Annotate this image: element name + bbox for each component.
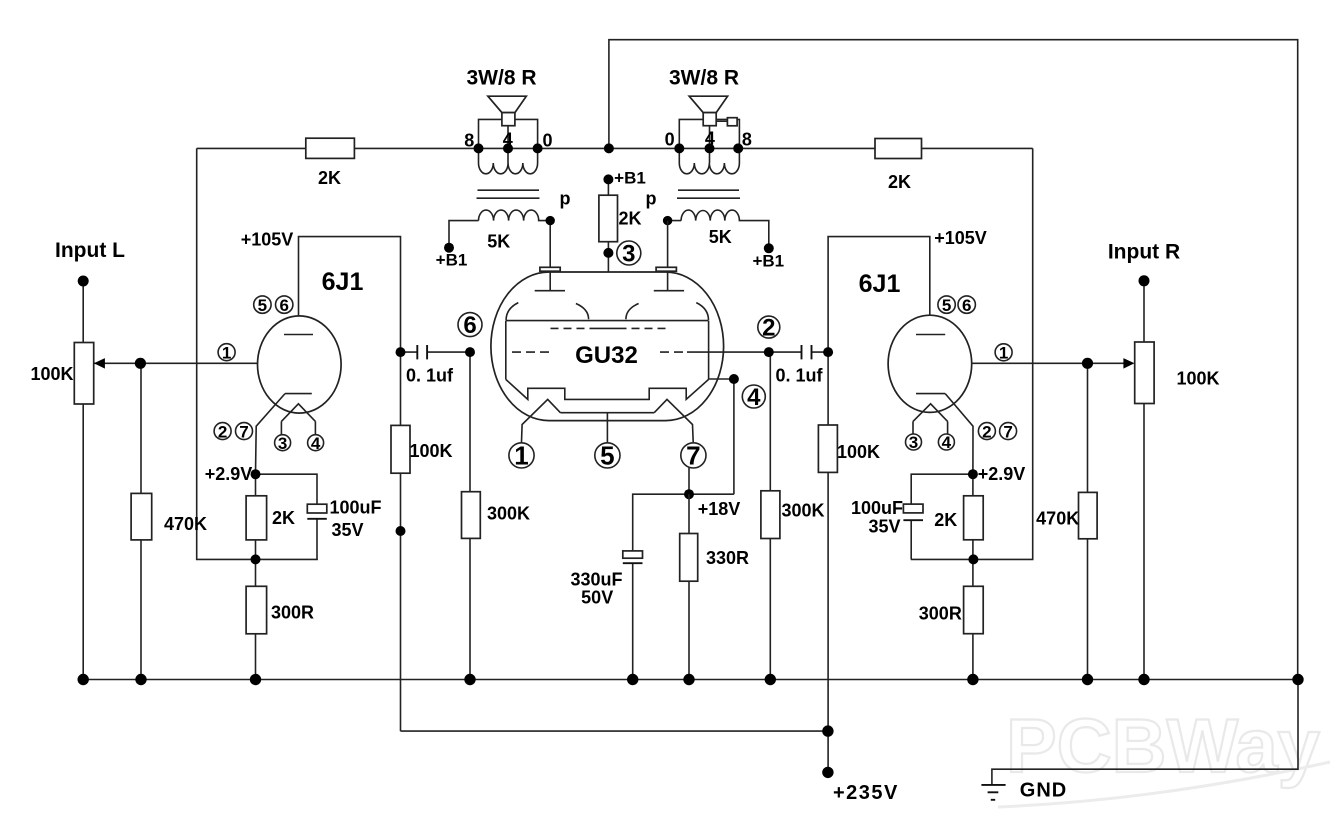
pin circle 1 left V1: [218, 344, 235, 361]
speaker SP2 link to terminal: [715, 120, 727, 122]
svg-text:+105V: +105V: [241, 230, 294, 250]
capacitor 100uF left plate bottom: [307, 518, 327, 520]
wire left 470K column: [140, 363, 142, 679]
pin circle 5 right V2: [938, 296, 955, 313]
wire right input column: [1143, 281, 1145, 680]
wire 330R column: [688, 494, 690, 679]
junction right cap to plate: [823, 347, 833, 357]
pin circle 1: [509, 443, 534, 468]
svg-text:7: 7: [686, 441, 700, 471]
svg-text:+B1: +B1: [614, 169, 646, 188]
resistor 470K right: [1079, 492, 1098, 538]
resistor 300K right: [761, 491, 780, 539]
wire right coupling cap leads: [769, 351, 828, 353]
wire right 100uF branch: [911, 474, 973, 559]
T2 primary lead to plate cap: [667, 221, 669, 268]
svg-text:470K: 470K: [1036, 509, 1079, 529]
svg-text:p: p: [560, 189, 571, 209]
terminal +235V: [822, 767, 833, 778]
wire left input column: [82, 281, 84, 680]
T2 secondary winding: [679, 148, 739, 173]
pin circle 4: [742, 385, 765, 408]
GU32 right plate lead: [667, 271, 669, 291]
svg-text:3: 3: [622, 241, 635, 268]
GU32 left plate arcs: [506, 303, 588, 320]
potentiometer 100K right wiper arrow: [1123, 358, 1134, 369]
CENTER +B1 SCREEN SUPPLY: [599, 169, 646, 329]
svg-text:300K: 300K: [781, 501, 824, 521]
pin circle 3 right V2: [906, 434, 922, 450]
GU32 left plate cap: [540, 267, 560, 271]
svg-text:3W/8 R: 3W/8 R: [669, 67, 739, 90]
RIGHT CATHODE NETWORK: [851, 464, 1025, 634]
T2 center tap lead: [709, 126, 711, 149]
pin circle 6 left V1: [276, 296, 293, 313]
speaker SP1 box: [502, 113, 515, 126]
resistor 2K left cathode: [246, 496, 267, 540]
terminal +B1 center: [603, 174, 613, 184]
svg-text:330R: 330R: [706, 548, 749, 568]
svg-text:2K: 2K: [934, 510, 957, 530]
pin circle 7: [681, 443, 706, 468]
resistor 100K left plate: [391, 425, 410, 473]
svg-text:50V: 50V: [581, 588, 613, 608]
capacitor 0.1uf right: [802, 345, 812, 359]
junction grid wire to 470K left: [135, 358, 146, 369]
svg-text:3: 3: [278, 434, 287, 453]
GROUND BUS DOTS: [78, 674, 1304, 685]
V2 cathode lead: [945, 394, 973, 475]
svg-text:+105V: +105V: [934, 228, 987, 248]
speaker SP2 terminal square: [727, 118, 737, 126]
+18V CATHODE NETWORK GU32: [570, 489, 749, 679]
resistor 2K right cathode: [964, 496, 984, 540]
terminal +B1 left: [444, 243, 454, 253]
resistor 2K screen: [599, 195, 618, 242]
wire left feedback frame: [197, 148, 318, 559]
svg-text:4: 4: [747, 384, 761, 411]
svg-text:8: 8: [464, 131, 474, 151]
svg-text:+B1: +B1: [436, 251, 468, 270]
node +18V: [684, 489, 694, 499]
wire right feedback frame: [911, 148, 1033, 559]
junction left cap to plate: [396, 347, 406, 357]
speaker SP2 cone: [689, 96, 727, 112]
wire right grid-leak 300K column: [769, 352, 771, 679]
SUPPLY DOTS: [822, 725, 833, 778]
svg-text:0. 1uf: 0. 1uf: [406, 366, 454, 386]
V2 cathode bar: [916, 393, 945, 395]
GROUND SYMBOL: [981, 780, 1067, 802]
svg-text:+B1: +B1: [752, 252, 784, 271]
RIGHT OUTPUT TRANSFORMER T2: [646, 67, 785, 271]
GU32 right plate arcs: [626, 303, 709, 320]
svg-text:5K: 5K: [487, 232, 510, 252]
svg-text:7: 7: [239, 422, 248, 441]
GU32 screen top line: [506, 320, 709, 322]
svg-text:+2.9V: +2.9V: [205, 464, 253, 484]
junction right cap to grid pin2: [764, 347, 774, 357]
V1 cathode bar: [285, 393, 312, 395]
junction bus 330uF: [627, 674, 638, 685]
capacitor 0.1uf left: [417, 345, 427, 359]
pin7 lead below: [688, 468, 690, 494]
pin number 3 circle: [617, 241, 641, 265]
wire left coupling cap leads: [401, 351, 471, 353]
junction bus 300K right: [765, 674, 776, 685]
GU32 screen dashes: [551, 327, 666, 329]
speaker SP1 cone: [488, 96, 526, 112]
junction bus pot left: [78, 674, 89, 685]
GU32 right plate cap: [656, 267, 676, 271]
TUBE 6J1 LEFT V1: [214, 230, 363, 475]
pin circle 5: [595, 443, 620, 468]
terminal +B1 right: [764, 243, 774, 253]
junction center bus: [604, 143, 614, 153]
junction bus 300R right: [967, 674, 978, 685]
svg-text:2K: 2K: [618, 209, 641, 229]
svg-text:0: 0: [665, 130, 675, 150]
svg-text:5K: 5K: [709, 227, 732, 247]
GU32 heater bottom line: [560, 412, 654, 414]
svg-text:1: 1: [222, 344, 231, 363]
node 2K bottom right: [968, 554, 978, 564]
wire right grid to pot: [951, 362, 1123, 364]
svg-text:p: p: [646, 189, 657, 209]
svg-text:35V: 35V: [331, 520, 363, 540]
GU32 TUBE U1: [458, 267, 780, 494]
svg-text:Input R: Input R: [1108, 241, 1180, 264]
wire +18V node run: [633, 494, 734, 679]
wire right 470K column: [1087, 363, 1089, 679]
LEFT OUTPUT TRANSFORMER T1: [436, 67, 571, 270]
V2 heater: [913, 404, 948, 435]
potentiometer 100K left wiper arrow: [94, 358, 105, 369]
T1 center tap lead: [507, 126, 509, 149]
wire ground bus: [83, 679, 1298, 681]
T1 secondary winding: [479, 148, 538, 173]
capacitor 100uF right plate bottom: [903, 519, 923, 521]
V1 plate bar: [284, 334, 313, 336]
resistor 330R: [680, 534, 698, 582]
GU32 beam box sides: [506, 321, 709, 380]
V1 heater: [281, 404, 315, 435]
svg-text:300K: 300K: [487, 504, 530, 524]
pin circle 5 left V1: [254, 296, 271, 313]
node +2.9V left: [251, 469, 261, 479]
BUS JUNCTION DOTS TOP: [474, 143, 744, 153]
wire left 100uF branch: [256, 474, 318, 559]
wire +235V feed: [401, 730, 828, 732]
junction bus 300R left: [250, 674, 261, 685]
V2 envelope: [888, 315, 972, 412]
V2 plate bar: [916, 334, 945, 336]
svg-text:6: 6: [962, 296, 971, 315]
svg-text:2: 2: [982, 422, 991, 441]
junction tap0 right: [674, 143, 684, 153]
resistor 100K right plate: [818, 425, 837, 472]
junction bus pot right: [1138, 674, 1149, 685]
resistor 2K feedback left: [306, 138, 355, 158]
junction tap4 left: [503, 143, 513, 153]
V1 cathode lead: [256, 394, 286, 475]
svg-text:470K: 470K: [164, 514, 207, 534]
wire left grid-leak 300K column: [469, 352, 471, 679]
pin circle 4 right V2: [938, 434, 954, 450]
junction 5K to plate cap: [546, 216, 555, 225]
svg-text:8: 8: [742, 130, 752, 150]
junction 5K to plate cap right: [663, 216, 672, 225]
pin circle 2 right V2: [978, 423, 995, 440]
svg-text:100K: 100K: [837, 442, 880, 462]
INPUT L SECTION: [30, 239, 207, 540]
GU32 pin5 lead: [606, 413, 608, 443]
WATERMARK: [998, 704, 1330, 807]
junction tap0 left: [533, 143, 543, 153]
T1 core: [477, 190, 540, 198]
terminal Input R: [1139, 275, 1150, 286]
terminal Input L: [78, 276, 89, 287]
pin circle 2 left V1: [214, 423, 231, 440]
capacitor 100uF left plate top: [307, 504, 327, 513]
svg-text:0. 1uf: 0. 1uf: [775, 366, 823, 386]
junction bus 330R: [683, 674, 694, 685]
TUBE 6J1 RIGHT V2: [859, 228, 1017, 474]
GU32 heater right caret and pin7 lead: [654, 399, 693, 442]
svg-text:2K: 2K: [318, 168, 341, 188]
resistor 300R left: [246, 586, 267, 634]
pin circle 2: [758, 316, 780, 338]
ground bar short: [991, 799, 995, 801]
svg-text:2K: 2K: [272, 508, 295, 528]
svg-text:+18V: +18V: [698, 499, 741, 519]
svg-text:1: 1: [514, 441, 528, 471]
svg-text:0: 0: [542, 131, 552, 151]
svg-text:35V: 35V: [868, 517, 900, 537]
wire left plate node and +105V rail: [299, 237, 401, 731]
GU32 envelope: [491, 272, 724, 421]
svg-text:5: 5: [600, 441, 614, 471]
junction tap4 right: [705, 143, 715, 153]
GRID LEAK RESISTORS 300K: [462, 491, 825, 539]
svg-text:2: 2: [218, 422, 227, 441]
junction bus 470K right: [1082, 674, 1093, 685]
svg-text:+2.9V: +2.9V: [978, 464, 1026, 484]
wire left grid to pot: [94, 362, 278, 364]
node 2K bottom left: [251, 554, 261, 564]
T2 core: [677, 190, 740, 198]
GU32 left plate lead: [549, 271, 551, 291]
svg-text:100uF: 100uF: [329, 498, 381, 518]
GU32 heater left caret and pin1 lead: [522, 399, 561, 442]
svg-text:6J1: 6J1: [322, 268, 364, 296]
svg-text:300R: 300R: [919, 604, 962, 624]
node pin3 dot: [603, 248, 613, 258]
junction tap8 left: [474, 143, 484, 153]
pin circle 6 right V2: [958, 296, 975, 313]
potentiometer 100K left body: [74, 343, 93, 405]
svg-text:2K: 2K: [888, 172, 911, 192]
pin circle 3 left V1: [275, 435, 291, 451]
T1 primary winding 5K: [449, 210, 550, 267]
pin circle 4 left V1: [308, 435, 324, 451]
svg-text:6: 6: [463, 312, 476, 339]
pin circle 6: [458, 313, 482, 337]
T2 secondary box: [679, 119, 739, 148]
ground bar mid: [988, 791, 999, 793]
svg-text:6J1: 6J1: [859, 270, 901, 298]
GU32 pin4 wire: [709, 379, 734, 494]
svg-text:330uF: 330uF: [570, 570, 622, 590]
speaker SP2 box: [703, 113, 716, 126]
INPUT R SECTION: [1036, 241, 1219, 539]
GU32 control grid dashes left: [512, 351, 549, 353]
pin circle 7 right V2: [1000, 423, 1017, 440]
LEFT CATHODE NETWORK: [205, 464, 382, 634]
svg-text:5: 5: [942, 296, 951, 315]
capacitor 330uF plate top: [623, 551, 643, 558]
LABEL +235V: [833, 782, 899, 804]
T1 secondary box: [479, 119, 538, 148]
pin circle 1 right V2: [995, 344, 1012, 361]
GU32 left plate bar: [535, 290, 565, 292]
junction grid wire to 470K right: [1082, 358, 1093, 369]
node +2.9V right: [968, 469, 978, 479]
svg-text:100K: 100K: [1176, 369, 1219, 389]
wire top frame: [609, 40, 1298, 680]
pin circle 7 left V1: [236, 423, 253, 440]
pin4 node dot: [729, 374, 739, 384]
svg-text:4: 4: [311, 434, 321, 453]
GU32 right plate bar: [654, 290, 684, 292]
resistor 300K left: [462, 492, 481, 539]
svg-text:GND: GND: [1020, 780, 1067, 802]
junction left cap to grid pin6: [465, 347, 475, 357]
PLATE LOAD RESISTORS 100K: [391, 425, 880, 536]
svg-text:2: 2: [762, 314, 775, 341]
wire main output bus: [197, 147, 1033, 149]
GU32 cathode crown: [506, 379, 709, 399]
svg-text:7: 7: [1003, 422, 1012, 441]
junction bus right frame: [1292, 674, 1303, 685]
junction +235V feed: [822, 725, 833, 736]
wire right cathode column: [972, 474, 974, 679]
T2 primary winding 5K: [668, 210, 769, 248]
capacitor 100uF right plate top: [903, 504, 923, 513]
capacitor 330uF plate bottom: [623, 562, 643, 564]
wire left cathode column: [255, 474, 257, 679]
junction bus 300K left: [464, 674, 475, 685]
junction bus 470K left: [135, 674, 146, 685]
svg-text:6: 6: [279, 296, 288, 315]
svg-text:100K: 100K: [30, 364, 73, 384]
svg-text:3: 3: [909, 433, 918, 452]
resistor 300R right: [964, 586, 984, 633]
svg-text:4: 4: [942, 433, 952, 452]
node dot left plate column: [396, 526, 406, 536]
FEEDBACK RESISTORS 2K: [306, 138, 922, 192]
GU32 control grid dashes right: [660, 351, 769, 353]
svg-text:GU32: GU32: [575, 342, 638, 369]
svg-text:PCBWay: PCBWay: [1006, 704, 1320, 789]
svg-text:5: 5: [258, 296, 267, 315]
svg-text:300R: 300R: [271, 603, 314, 623]
wire GND run: [992, 680, 1298, 785]
svg-text:+235V: +235V: [833, 782, 899, 804]
resistor 2K feedback right: [875, 139, 922, 159]
V1 envelope: [258, 316, 342, 413]
wire right plate node and +105V rail: [828, 237, 930, 773]
COUPLING CAPS: [396, 345, 834, 386]
potentiometer 100K right body: [1135, 342, 1154, 404]
svg-text:100uF: 100uF: [851, 498, 903, 518]
wire +B1 center to pin 3: [607, 178, 609, 328]
svg-text:Input L: Input L: [55, 239, 125, 262]
resistor 470K left: [131, 493, 152, 540]
ground bar long: [981, 784, 1005, 786]
svg-text:1: 1: [999, 344, 1008, 363]
svg-text:100K: 100K: [409, 441, 452, 461]
junction tap8 right: [733, 143, 743, 153]
svg-text:3W/8 R: 3W/8 R: [466, 67, 536, 90]
